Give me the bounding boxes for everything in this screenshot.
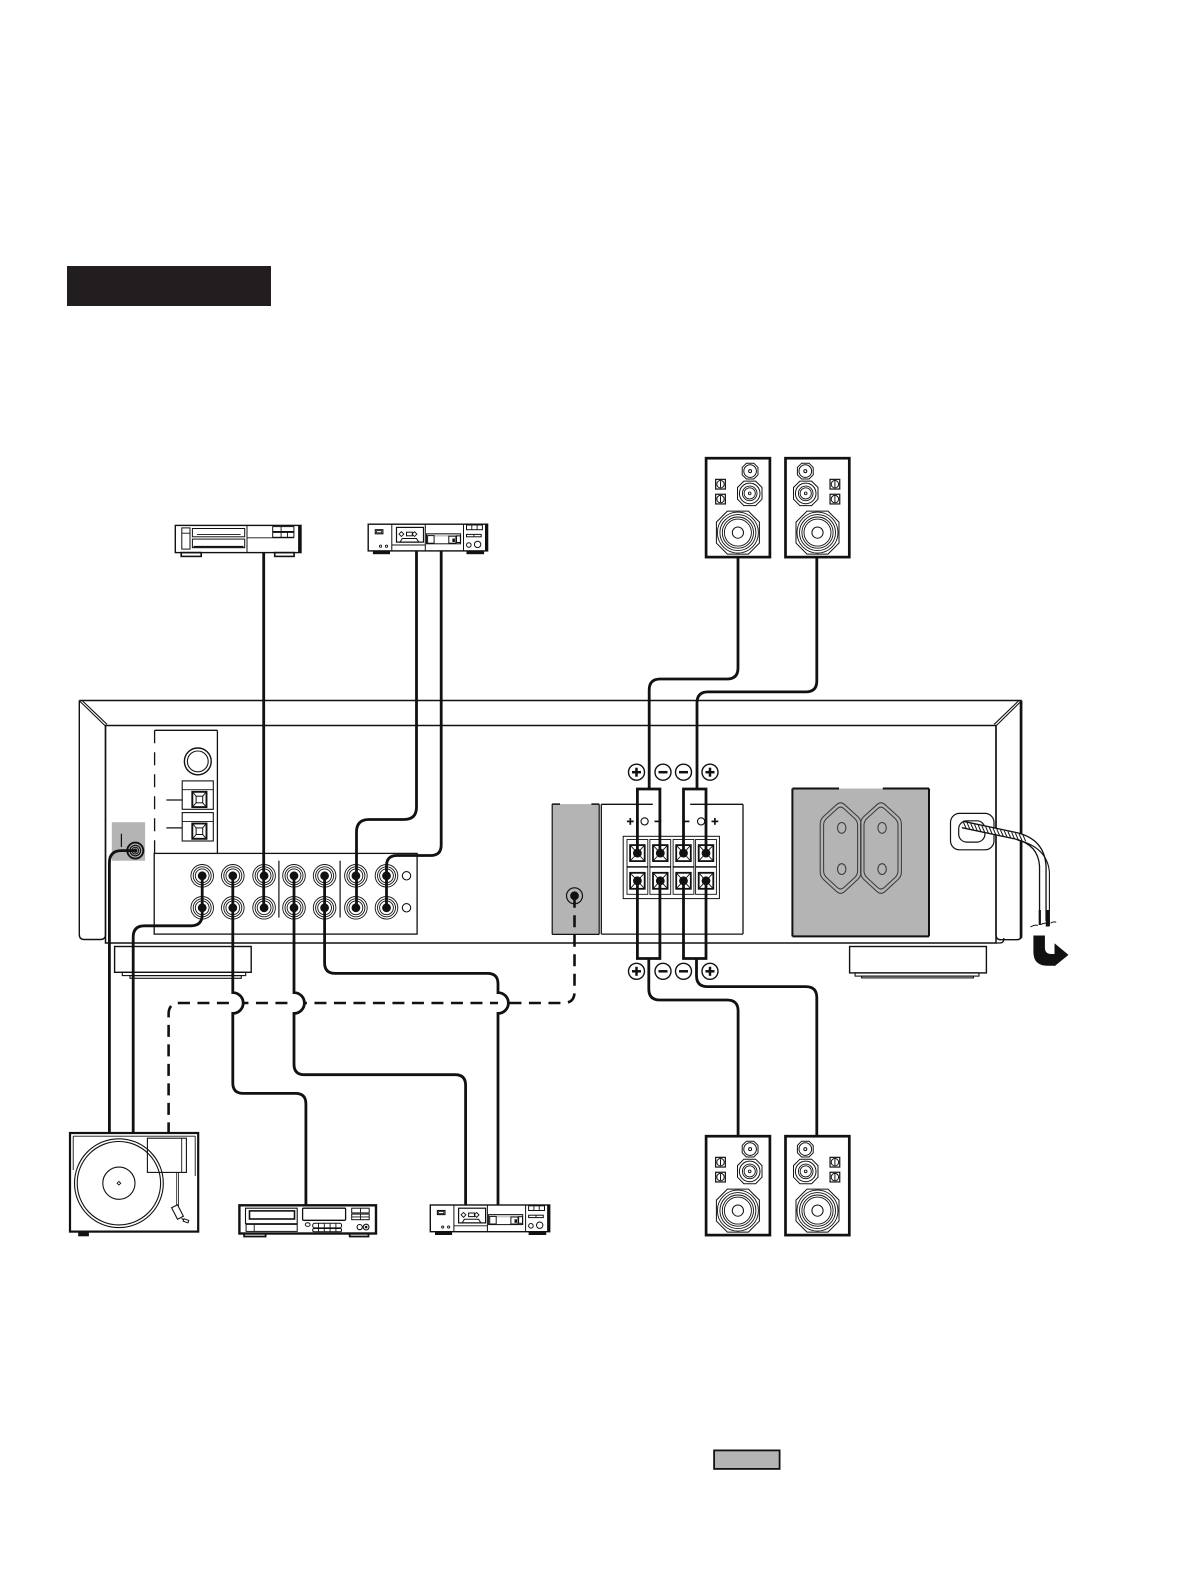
GND screw terminal <box>127 843 143 859</box>
RCA jack TUNER L <box>253 865 276 888</box>
CD player (top) <box>175 525 301 556</box>
receiver bottom-right corner <box>996 938 1004 943</box>
speaker B left <box>706 1136 770 1235</box>
speaker spring terminal B - L <box>650 867 671 894</box>
speaker A right <box>786 458 850 557</box>
receiver left side panel <box>79 701 105 940</box>
wire: phono jacks to turntable <box>133 908 202 1133</box>
speaker cable: speaker B right <box>697 959 817 1137</box>
RCA jack PHONO L <box>191 865 214 888</box>
input jack panel <box>154 853 417 934</box>
RCA jack TAPE2 PB R <box>345 897 368 920</box>
polarity label + (left) <box>627 818 634 825</box>
wire: tape deck (top) play to jacks <box>357 551 417 908</box>
speaker cable: speaker A right <box>697 557 817 789</box>
power cord wire ends <box>1031 910 1057 927</box>
section title bar <box>67 266 271 306</box>
polarity symbol - top A-R <box>676 764 692 780</box>
wire: jacks to cassette deck (bottom) rec <box>325 876 509 1205</box>
wire: ground terminal to turntable <box>109 851 135 1133</box>
screw hole right <box>698 818 705 825</box>
AC outlets gray box <box>792 789 929 937</box>
polarity label - (right) <box>683 820 690 822</box>
speaker spring terminal A + L <box>627 840 648 867</box>
speaker spring terminal A - R <box>673 840 694 867</box>
speaker spring terminal B - R <box>673 867 694 894</box>
polarity symbol + bottom B-L <box>629 963 645 979</box>
jack group divider 2 <box>339 861 341 918</box>
AM terminal lead line 1 <box>166 799 182 801</box>
power cord strain relief <box>951 813 995 849</box>
RCA jack TAPE2 REC L <box>375 865 398 888</box>
RCA jack TUNER R <box>253 897 276 920</box>
receiver right foot <box>850 947 987 973</box>
screw hole left <box>641 818 648 825</box>
speaker B right <box>786 1136 850 1235</box>
speaker cable: speaker A left <box>649 557 738 789</box>
speaker cable split B left <box>637 879 660 959</box>
RCA jack PHONO R <box>191 897 214 920</box>
AM spring terminal 2 <box>182 813 213 841</box>
AM terminal lead line 2 <box>166 827 182 829</box>
wire: tape deck (top) rec to jacks <box>387 551 442 908</box>
GND terminal mark <box>120 834 122 847</box>
speaker cable split A right <box>684 789 707 855</box>
polarity symbol - bottom B-L <box>655 963 671 979</box>
polarity symbol + top A-L <box>629 764 645 780</box>
speaker spring terminal B + R <box>696 867 717 894</box>
wire: phono jack link <box>201 876 204 908</box>
cassette deck (top) <box>368 524 487 554</box>
subwoofer output gray box <box>552 804 599 934</box>
receiver top-right corner chamfer <box>996 701 1021 726</box>
subwoofer RCA jack <box>567 888 583 904</box>
RCA jack TAPE1 REC L <box>313 865 336 888</box>
GND terminal gray box <box>112 822 145 861</box>
wire: jacks to CD player (bottom) <box>233 876 306 1206</box>
wire: CD player (top) to CD jacks <box>262 553 265 908</box>
speaker A left <box>706 458 770 557</box>
AC outlet left <box>820 803 861 894</box>
polarity symbol - top A-L <box>655 764 671 780</box>
speaker spring terminal B + L <box>627 867 648 894</box>
panel screw top <box>402 872 410 880</box>
RCA jack TAPE2 PB L <box>345 865 368 888</box>
RCA jack TAPE2 REC R <box>375 897 398 920</box>
panel screw bottom <box>402 904 410 912</box>
speaker cable: speaker B left <box>649 959 738 1137</box>
RCA jack CD R <box>222 897 245 920</box>
polarity label - (left) <box>655 820 662 822</box>
speaker terminals box <box>601 804 743 934</box>
AM antenna compartment box <box>155 730 218 854</box>
cassette deck (bottom) <box>430 1205 549 1235</box>
speaker cable split A left <box>637 789 660 855</box>
jack group divider 1 <box>278 861 280 918</box>
CD player (bottom) <box>239 1205 376 1236</box>
speaker terminal block frame <box>623 836 719 898</box>
receiver right side panel <box>996 701 1022 940</box>
RCA jack TAPE1 PB L <box>283 865 306 888</box>
polarity symbol + top A-R <box>702 764 718 780</box>
polarity symbol - bottom B-R <box>676 963 692 979</box>
receiver top edge <box>79 700 1021 702</box>
wire crossover hop <box>294 993 304 1014</box>
RCA jack TAPE1 PB R <box>283 897 306 920</box>
RCA jack TAPE1 REC R <box>313 897 336 920</box>
dashed wire: subwoofer out to turntable <box>169 896 575 1133</box>
legend box <box>714 1450 780 1469</box>
speaker spring terminal A + R <box>696 840 717 867</box>
receiver left foot <box>115 947 252 973</box>
power cord <box>963 822 1050 926</box>
speaker cable split B right <box>684 879 707 959</box>
receiver top-left corner chamfer <box>80 701 106 726</box>
AM antenna round connector <box>184 748 211 775</box>
receiver rear panel face <box>106 726 997 944</box>
polarity label + (right) <box>712 818 719 825</box>
polarity symbol + bottom B-R <box>702 963 718 979</box>
plug direction arrow <box>1033 936 1068 967</box>
turntable <box>70 1133 198 1236</box>
AM spring terminal 1 <box>182 781 213 809</box>
wire: jacks to cassette deck (bottom) play <box>294 876 466 1205</box>
speaker spring terminal A - L <box>650 840 671 867</box>
RCA jack CD L <box>222 865 245 888</box>
wire crossover hop <box>233 993 243 1014</box>
wire crossover hop <box>498 993 508 1014</box>
AC outlet right <box>861 803 902 894</box>
